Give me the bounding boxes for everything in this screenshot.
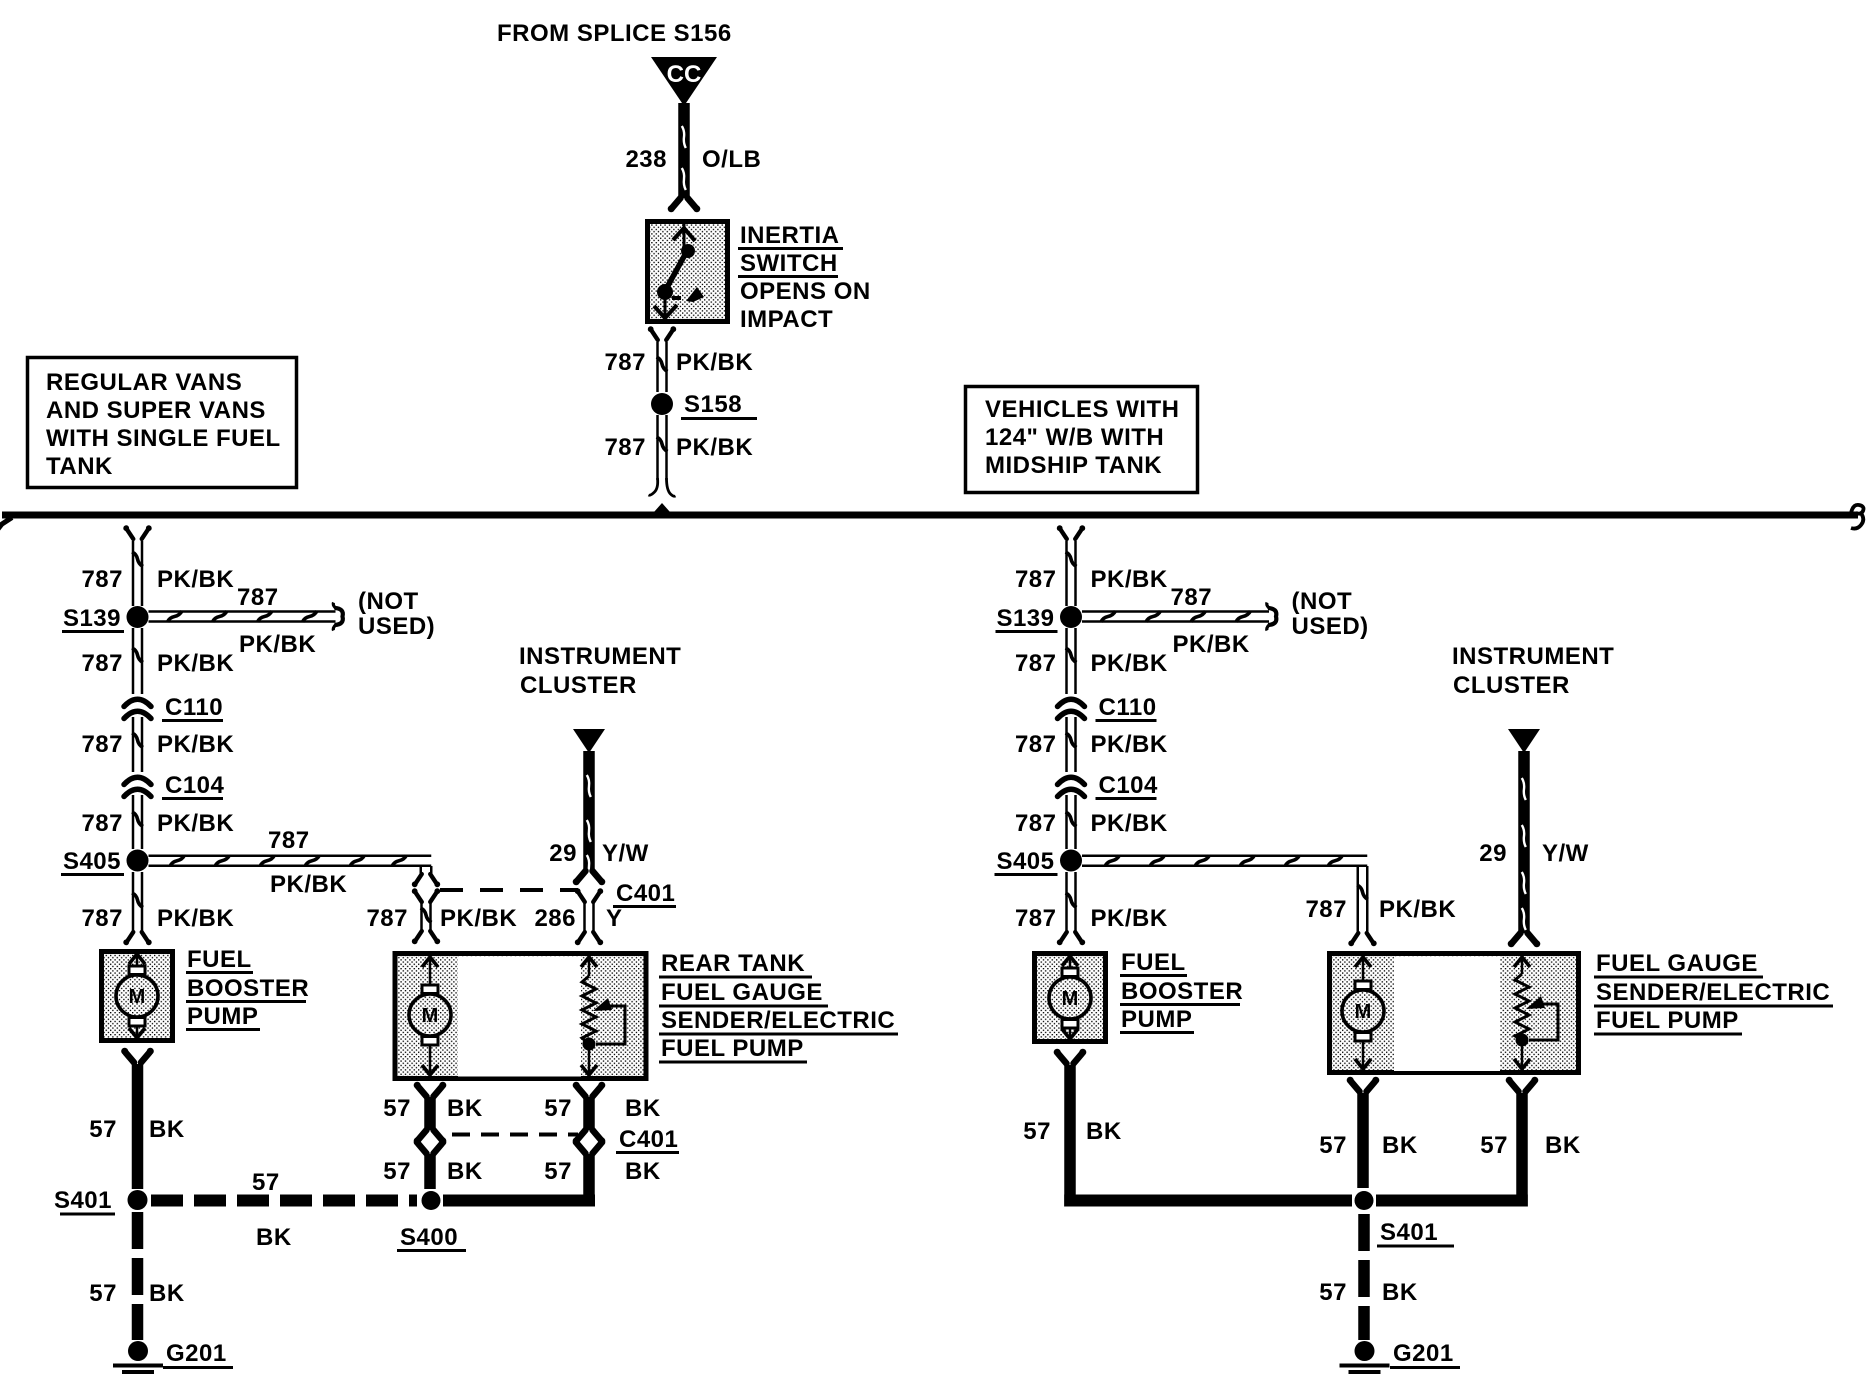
svg-text:57: 57 [383,1095,411,1122]
fuel gauge sender/electric fuel pump box (right) [1330,954,1579,1073]
wire 238 O/LB from CC to inertia switch [678,103,690,198]
svg-text:M: M [1062,988,1079,1010]
svg-text:787: 787 [268,827,310,854]
svg-text:FUEL PUMP: FUEL PUMP [1596,1007,1739,1034]
svg-text:REGULAR VANS: REGULAR VANS [46,369,242,396]
svg-text:PK/BK: PK/BK [270,871,347,898]
svg-text:BK: BK [149,1280,185,1307]
svg-text:TANK: TANK [46,453,113,480]
svg-text:BK: BK [1382,1279,1418,1306]
svg-text:57: 57 [544,1095,572,1122]
splice S139 (right) [1060,606,1082,628]
connector at bus (right) [1061,530,1067,540]
splice S139 (left) [127,606,149,628]
fuel gauge sender resistor (right) [1521,956,1524,974]
svg-text:WITH SINGLE FUEL: WITH SINGLE FUEL [46,425,281,452]
svg-text:286: 286 [534,905,576,932]
svg-text:PK/BK: PK/BK [157,650,234,677]
wire 29 Y/W instrument cluster to fuel gauge box (right) [1518,751,1530,933]
svg-text:57: 57 [252,1169,280,1196]
svg-text:SWITCH: SWITCH [740,250,838,277]
wire 787 PK/BK to rear tank box (left) [420,902,423,931]
wire 787 PK/BK bus to S139 (right) [1065,541,1068,606]
wire 787 PK/BK S405 to fuel booster pump (left) [132,872,135,931]
connector at bus (left) [127,530,133,540]
svg-text:PK/BK: PK/BK [1091,810,1168,837]
svg-text:787: 787 [1171,584,1213,611]
svg-text:USED): USED) [358,613,435,640]
svg-text:57: 57 [89,1116,117,1143]
svg-text:S405: S405 [63,848,121,875]
svg-text:MIDSHIP TANK: MIDSHIP TANK [985,452,1162,479]
bus wire (horizontal rail) [2,512,1858,519]
svg-text:AND SUPER VANS: AND SUPER VANS [46,397,266,424]
svg-text:SENDER/ELECTRIC: SENDER/ELECTRIC [661,1007,895,1034]
wire 57 BK C401 to S400 [418,1144,427,1154]
svg-text:57: 57 [383,1158,411,1185]
svg-text:FUEL: FUEL [187,946,252,973]
svg-text:C401: C401 [619,1126,678,1153]
svg-text:BK: BK [1382,1132,1418,1159]
svg-text:G201: G201 [1393,1340,1454,1367]
svg-text:SENDER/ELECTRIC: SENDER/ELECTRIC [1596,979,1830,1006]
node bus junction caret [654,503,670,512]
svg-text:S139: S139 [63,605,121,632]
wire 787 PK/BK S139 stub to not-used (left) [149,610,336,613]
wire 57 BK S401 to G201 (right, dashed) [1358,1214,1370,1251]
wire 787 PK/BK S139 to C110 (right) [1065,628,1068,694]
svg-text:787: 787 [81,566,123,593]
connector C401 (lower, dashed) [452,1133,578,1137]
svg-text:M: M [1355,1001,1372,1023]
fuel pump motor (right) [1362,956,1365,983]
bus left end hook [0,518,12,530]
wire 57 BK sender to S401 (right) [1510,1082,1519,1092]
connector end at inertia switch [672,198,681,208]
svg-text:PUMP: PUMP [187,1003,258,1030]
svg-text:C401: C401 [616,880,675,907]
svg-text:PK/BK: PK/BK [157,905,234,932]
svg-text:57: 57 [544,1158,572,1185]
svg-text:PK/BK: PK/BK [1091,731,1168,758]
svg-text:FROM SPLICE S156: FROM SPLICE S156 [497,20,732,47]
ground G201 (right) [1355,1341,1375,1361]
svg-text:FUEL GAUGE: FUEL GAUGE [661,979,823,1006]
svg-text:OPENS ON: OPENS ON [740,278,871,305]
wire 57 BK S401 to S400 (dashed) [151,1195,183,1207]
inertia switch box [648,222,728,322]
connector C401 (upper, dashed) [440,888,578,892]
svg-text:PK/BK: PK/BK [1379,896,1456,923]
sender wiper arrow and loop (right) [1526,996,1545,1009]
wire 787 PK/BK C110 to C104 (right) [1065,717,1068,772]
svg-text:(NOT: (NOT [1292,588,1353,615]
svg-text:57: 57 [1023,1118,1051,1145]
svg-text:PK/BK: PK/BK [440,905,517,932]
svg-text:BK: BK [625,1158,661,1185]
svg-text:INERTIA: INERTIA [740,222,840,249]
wire 787 PK/BK S405 to C401 branch (left horizontal) [149,855,432,858]
wire 286 Y C401 to rear tank box [579,893,585,903]
svg-text:USED): USED) [1292,613,1369,640]
ground G201 (left) [128,1341,148,1361]
svg-text:57: 57 [1480,1132,1508,1159]
svg-text:PK/BK: PK/BK [1091,905,1168,932]
svg-text:238: 238 [625,146,667,173]
svg-text:O/LB: O/LB [702,146,761,173]
svg-text:PK/BK: PK/BK [676,349,753,376]
wire 787 PK/BK S139 stub to not-used (right) [1082,610,1269,613]
caption box REGULAR VANS AND SUPER VANS WITH SINGLE FUEL TANK [28,358,297,488]
instrument cluster connector triangle (left) [573,729,605,753]
svg-text:S158: S158 [684,391,742,418]
connector C110 (right) [1058,699,1085,706]
svg-text:(NOT: (NOT [358,588,419,615]
svg-text:S405: S405 [996,848,1054,875]
connector pair at corner (left) [416,874,422,884]
splice S405 (right) [1060,850,1082,872]
svg-text:Y/W: Y/W [1542,840,1589,867]
caption box VEHICLES WITH 124 W/B WITH MIDSHIP TANK [966,387,1198,493]
svg-text:PUMP: PUMP [1121,1006,1192,1033]
svg-text:787: 787 [1015,810,1057,837]
wire 57 BK S401 to G201 (left, dashed) [132,1212,144,1249]
svg-text:INSTRUMENT: INSTRUMENT [1452,643,1614,670]
svg-text:BOOSTER: BOOSTER [187,975,309,1002]
svg-text:787: 787 [81,731,123,758]
svg-text:787: 787 [1015,731,1057,758]
fuel booster pump motor (right) [1069,956,1072,970]
svg-text:Y: Y [606,905,623,932]
fuel booster pump box (right) [1035,954,1106,1042]
wire 787 PK/BK C104 to S405 (left) [132,795,135,849]
svg-text:INSTRUMENT: INSTRUMENT [519,643,681,670]
svg-text:BK: BK [625,1095,661,1122]
svg-text:57: 57 [1319,1132,1347,1159]
svg-text:BK: BK [149,1116,185,1143]
rear tank fuel pump motor [429,956,432,987]
splice S401 (left) [128,1190,148,1210]
wire 29 Y/W instrument cluster to C401 (left) [583,751,595,871]
instrument cluster connector triangle (right) [1508,729,1540,753]
wire 787 PK/BK S405 to fuel gauge box (right horizontal) [1082,855,1367,858]
svg-text:PK/BK: PK/BK [157,810,234,837]
svg-text:BOOSTER: BOOSTER [1121,978,1243,1005]
wire 787 PK/BK S158 to bus [656,415,659,480]
connector CC from splice S156 (triangle) [651,57,717,106]
svg-text:PK/BK: PK/BK [157,731,234,758]
splice S401 (right) [1355,1191,1374,1210]
wire 57 BK fuel booster pump to S401 (left) [126,1053,135,1063]
svg-text:CLUSTER: CLUSTER [1453,672,1570,699]
bus right end hook [1851,505,1864,514]
svg-text:29: 29 [1479,840,1507,867]
svg-text:787: 787 [1305,896,1347,923]
connector C104 (left) [124,777,151,784]
svg-text:C110: C110 [1099,694,1157,721]
svg-text:CC: CC [667,61,702,88]
wire 787 PK/BK bus to S139 (left) [132,541,135,606]
wire 787 PK/BK inertia switch to S158 [652,331,658,341]
sender wiper arrow and loop [593,998,612,1011]
wire 787 PK/BK S405 to fuel booster pump (right) [1065,872,1068,931]
svg-text:787: 787 [81,810,123,837]
svg-text:S401: S401 [1380,1219,1438,1246]
svg-text:PK/BK: PK/BK [1173,631,1250,658]
svg-text:PK/BK: PK/BK [1091,650,1168,677]
svg-text:787: 787 [81,905,123,932]
connector C110 (left) [124,699,151,706]
wire 57 BK C401 to S400 horizontal corner [577,1144,586,1154]
fuel booster pump motor (left) [136,954,139,968]
svg-text:FUEL GAUGE: FUEL GAUGE [1596,950,1758,977]
splice S405 (left) [127,850,149,872]
svg-text:C104: C104 [1099,772,1159,799]
svg-text:BK: BK [1086,1118,1122,1145]
svg-text:787: 787 [604,349,646,376]
svg-text:M: M [129,986,146,1008]
svg-text:CLUSTER: CLUSTER [520,672,637,699]
svg-text:IMPACT: IMPACT [740,306,833,333]
wire 57 BK rear tank motor to C401 (left) [418,1087,427,1097]
inertia switch contacts [673,228,695,241]
svg-text:57: 57 [1319,1279,1347,1306]
svg-text:787: 787 [237,584,279,611]
svg-text:787: 787 [604,434,646,461]
svg-text:57: 57 [89,1280,117,1307]
svg-text:FUEL: FUEL [1121,949,1186,976]
svg-text:G201: G201 [166,1340,227,1367]
svg-text:FUEL PUMP: FUEL PUMP [661,1035,804,1062]
svg-text:787: 787 [366,905,408,932]
wire 57 BK fuel booster pump to S401 (right) [1058,1054,1067,1064]
svg-text:PK/BK: PK/BK [1091,566,1168,593]
splice S158 [651,393,673,415]
wire 787 PK/BK C104 to S405 (right) [1065,795,1068,849]
svg-text:VEHICLES WITH: VEHICLES WITH [985,396,1180,423]
rear tank fuel gauge sender/electric fuel pump box [395,954,646,1079]
wire 787 PK/BK C110 to C104 (left) [132,717,135,772]
wire 57 BK fuel pump motor to S401 (right) [1351,1082,1360,1092]
wire 787 PK/BK S139 to C110 (left) [132,628,135,694]
fuel booster pump box (left) [102,952,173,1041]
connector C104 (right) [1058,777,1085,784]
svg-text:124" W/B WITH: 124" W/B WITH [985,424,1164,451]
svg-text:REAR TANK: REAR TANK [661,950,805,977]
wire end curls at bus [649,478,658,495]
svg-text:BK: BK [256,1224,292,1251]
svg-text:Y/W: Y/W [602,840,649,867]
svg-text:29: 29 [549,840,577,867]
wire 57 BK sender to C401 (left) [577,1087,586,1097]
splice S400 [422,1191,441,1210]
svg-text:787: 787 [81,650,123,677]
rear tank fuel gauge sender resistor [588,956,591,976]
svg-text:BK: BK [447,1095,483,1122]
svg-text:787: 787 [1015,566,1057,593]
svg-text:C110: C110 [165,694,223,721]
svg-text:BK: BK [1545,1132,1581,1159]
svg-text:S139: S139 [996,605,1054,632]
svg-text:PK/BK: PK/BK [676,434,753,461]
svg-text:C104: C104 [165,772,225,799]
svg-text:PK/BK: PK/BK [157,566,234,593]
svg-text:BK: BK [447,1158,483,1185]
svg-text:787: 787 [1015,650,1057,677]
svg-text:M: M [422,1005,439,1027]
svg-text:S400: S400 [400,1224,458,1251]
svg-text:S401: S401 [54,1187,112,1214]
wire 57 BK S400 to sender return (solid) [443,1195,595,1207]
svg-text:PK/BK: PK/BK [239,631,316,658]
svg-text:787: 787 [1015,905,1057,932]
